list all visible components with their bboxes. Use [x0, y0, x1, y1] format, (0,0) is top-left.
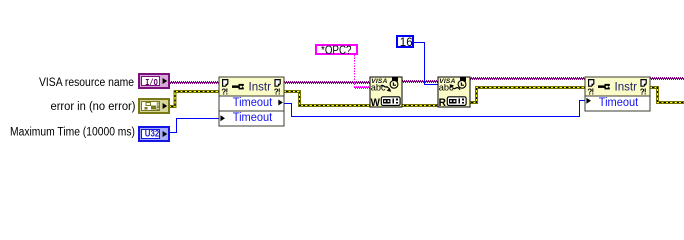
svg-text:Timeout: Timeout [233, 97, 273, 109]
svg-text:Instr: Instr [615, 82, 638, 94]
svg-text:I/O: I/O [145, 78, 158, 88]
svg-text:Timeout: Timeout [233, 112, 273, 124]
svg-text:abc: abc [371, 82, 386, 92]
svg-text:?!: ?! [221, 87, 227, 96]
svg-text:W: W [371, 97, 381, 109]
svg-text:?!: ?! [587, 87, 593, 96]
svg-text:Timeout: Timeout [599, 97, 639, 109]
svg-text:?!: ?! [640, 87, 646, 96]
svg-text:abc: abc [439, 82, 454, 92]
svg-text:16: 16 [400, 37, 413, 49]
svg-text:Maximum Time (10000 ms): Maximum Time (10000 ms) [10, 127, 135, 139]
svg-text:U32: U32 [145, 129, 160, 140]
svg-text:error in (no error): error in (no error) [51, 101, 136, 113]
svg-text:Instr: Instr [249, 82, 272, 94]
svg-text:*OPC?: *OPC? [321, 45, 352, 57]
svg-text:R: R [439, 97, 446, 109]
svg-text:?!: ?! [274, 87, 280, 96]
svg-text:VISA resource name: VISA resource name [39, 77, 134, 89]
